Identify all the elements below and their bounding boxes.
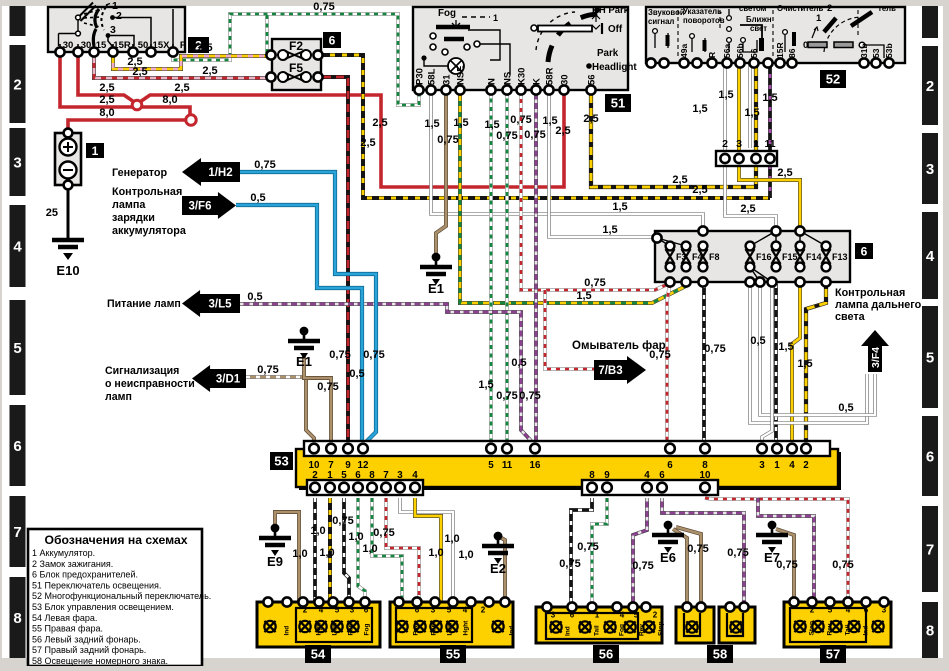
svg-text:51 Переключатель освещения.: 51 Переключатель освещения.	[32, 580, 161, 590]
svg-text:0,75: 0,75	[649, 349, 670, 361]
svg-text:53b: 53b	[884, 43, 894, 58]
svg-text:лампа: лампа	[112, 199, 146, 211]
svg-text:Stop: Stop	[809, 621, 816, 635]
svg-text:0,75: 0,75	[313, 1, 334, 13]
svg-text:1,5: 1,5	[453, 117, 468, 129]
svg-text:Headlight: Headlight	[592, 62, 637, 73]
svg-text:3/F6: 3/F6	[188, 201, 211, 213]
svg-text:1,0: 1,0	[292, 548, 307, 560]
svg-text:E10: E10	[56, 263, 79, 278]
svg-text:25: 25	[46, 207, 58, 219]
svg-text:1: 1	[92, 144, 99, 158]
svg-text:10: 10	[700, 470, 711, 481]
svg-text:55: 55	[446, 647, 460, 662]
svg-text:0,75: 0,75	[363, 349, 384, 361]
svg-text:0,75: 0,75	[704, 343, 725, 355]
svg-text:6: 6	[570, 611, 575, 620]
svg-text:5: 5	[447, 606, 452, 615]
svg-text:4: 4	[620, 611, 625, 620]
svg-text:1,0: 1,0	[319, 547, 334, 559]
svg-text:лампа дальнего: лампа дальнего	[835, 299, 922, 311]
svg-text:58R: 58R	[545, 67, 556, 85]
svg-text:RH Park: RH Park	[592, 5, 630, 16]
svg-text:0,75: 0,75	[832, 559, 853, 571]
svg-text:57: 57	[826, 647, 840, 662]
svg-text:3: 3	[397, 470, 403, 481]
svg-text:56 Левый задний фонарь.: 56 Левый задний фонарь.	[32, 634, 141, 644]
svg-text:F8: F8	[709, 252, 720, 262]
svg-text:2,5: 2,5	[777, 167, 792, 179]
svg-text:8,0: 8,0	[162, 94, 177, 106]
svg-text:8: 8	[589, 470, 595, 481]
svg-text:50: 50	[138, 40, 149, 51]
svg-text:1,5: 1,5	[692, 103, 707, 115]
svg-text:1,5: 1,5	[778, 341, 793, 353]
svg-text:2,5: 2,5	[174, 82, 189, 94]
svg-text:0,75: 0,75	[577, 541, 598, 553]
svg-text:56: 56	[599, 647, 613, 662]
svg-text:1,0: 1,0	[362, 543, 377, 555]
svg-text:4: 4	[319, 606, 324, 615]
svg-text:53 Блок управления освещением.: 53 Блок управления освещением.	[32, 602, 174, 612]
svg-text:6: 6	[364, 606, 369, 615]
svg-text:1,0: 1,0	[428, 547, 443, 559]
svg-text:6: 6	[355, 470, 361, 481]
svg-text:тель: тель	[878, 4, 896, 13]
svg-text:1,0: 1,0	[444, 533, 459, 545]
svg-text:6: 6	[415, 606, 420, 615]
svg-text:2: 2	[481, 606, 486, 615]
svg-text:2: 2	[926, 78, 934, 95]
svg-text:52 Многофункциональный переклю: 52 Многофункциональный переключатель.	[32, 591, 211, 601]
svg-text:0,75: 0,75	[559, 558, 580, 570]
svg-text:ламп: ламп	[105, 391, 132, 403]
svg-text:светом: светом	[739, 4, 767, 13]
svg-text:Ближн: Ближн	[746, 15, 772, 24]
svg-text:56: 56	[749, 48, 759, 58]
svg-text:15: 15	[96, 40, 107, 51]
svg-text:P: P	[180, 40, 187, 51]
svg-text:58 Освещение номерного знака.: 58 Освещение номерного знака.	[32, 656, 168, 666]
svg-text:7: 7	[383, 470, 389, 481]
svg-text:2: 2	[653, 611, 658, 620]
svg-text:сигнал: сигнал	[648, 17, 674, 26]
svg-text:P30: P30	[415, 68, 426, 85]
svg-text:F2: F2	[289, 39, 303, 53]
svg-text:54: 54	[311, 647, 326, 662]
svg-text:15R: 15R	[775, 42, 785, 58]
svg-text:1: 1	[493, 13, 498, 23]
svg-text:5: 5	[335, 606, 340, 615]
svg-text:52: 52	[826, 72, 840, 87]
svg-text:1: 1	[816, 13, 822, 24]
svg-text:зарядки: зарядки	[112, 212, 155, 224]
svg-text:6: 6	[926, 449, 934, 466]
svg-text:6: 6	[329, 33, 336, 47]
svg-text:5: 5	[828, 606, 833, 615]
svg-text:6: 6	[13, 438, 21, 455]
svg-text:Ind: Ind	[565, 626, 572, 636]
svg-text:Rev: Rev	[639, 624, 646, 636]
svg-text:Hght: Hght	[463, 620, 470, 636]
svg-text:0,5: 0,5	[838, 402, 853, 414]
svg-text:31b: 31b	[859, 43, 869, 58]
svg-text:Генератор: Генератор	[112, 167, 167, 179]
svg-text:Обозначения на схемах: Обозначения на схемах	[44, 533, 187, 547]
svg-text:3: 3	[736, 138, 742, 150]
svg-text:0,75: 0,75	[437, 134, 458, 146]
svg-text:3: 3	[13, 155, 21, 172]
svg-text:3/D1: 3/D1	[216, 374, 241, 386]
svg-text:0,75: 0,75	[373, 527, 394, 539]
svg-text:0,75: 0,75	[632, 560, 653, 572]
svg-text:3/L5: 3/L5	[209, 299, 233, 311]
svg-text:0,75: 0,75	[257, 364, 278, 376]
svg-text:2,5: 2,5	[197, 42, 212, 54]
svg-text:2,5: 2,5	[692, 184, 707, 196]
svg-text:51: 51	[611, 96, 625, 111]
svg-text:Указатель: Указатель	[683, 7, 722, 16]
svg-text:4: 4	[463, 606, 468, 615]
svg-text:4: 4	[789, 460, 795, 471]
svg-text:4: 4	[412, 470, 418, 481]
svg-text:Сигнализация: Сигнализация	[105, 365, 179, 377]
svg-text:Ind: Ind	[284, 626, 291, 636]
svg-text:8: 8	[926, 623, 934, 640]
svg-text:E2: E2	[490, 561, 506, 576]
svg-text:F16: F16	[756, 252, 772, 262]
svg-text:0,75: 0,75	[496, 130, 517, 142]
svg-text:Hght: Hght	[316, 620, 323, 636]
svg-text:поворотов: поворотов	[683, 16, 725, 25]
svg-text:5: 5	[341, 470, 347, 481]
svg-text:2,5: 2,5	[99, 94, 114, 106]
svg-text:2,5: 2,5	[132, 66, 147, 78]
svg-text:1,5: 1,5	[762, 92, 777, 104]
svg-text:2: 2	[722, 138, 728, 150]
svg-text:Park: Park	[431, 621, 438, 635]
svg-text:8: 8	[13, 610, 21, 627]
svg-text:2: 2	[13, 77, 21, 94]
svg-text:3: 3	[759, 460, 765, 471]
svg-text:0,75: 0,75	[687, 543, 708, 555]
svg-text:Fog: Fog	[438, 8, 456, 19]
svg-text:N: N	[487, 78, 498, 85]
svg-text:3: 3	[431, 606, 436, 615]
svg-text:1/H2: 1/H2	[208, 167, 232, 179]
svg-text:4: 4	[846, 606, 851, 615]
svg-text:K: K	[532, 78, 543, 85]
svg-text:6: 6	[667, 460, 673, 471]
svg-text:Fog: Fog	[619, 624, 626, 636]
svg-text:Park: Park	[348, 621, 355, 635]
svg-text:R: R	[707, 52, 717, 58]
svg-text:3: 3	[551, 611, 556, 620]
svg-text:Питание ламп: Питание ламп	[107, 298, 181, 310]
svg-text:16: 16	[530, 460, 541, 471]
svg-text:1,5: 1,5	[744, 107, 759, 119]
svg-text:2,5: 2,5	[202, 65, 217, 77]
svg-text:1,0: 1,0	[458, 549, 473, 561]
svg-text:Low: Low	[332, 622, 339, 636]
svg-text:1,5: 1,5	[797, 358, 812, 370]
svg-text:0,75: 0,75	[510, 114, 531, 126]
svg-text:2: 2	[827, 3, 832, 14]
svg-text:31: 31	[442, 74, 453, 85]
svg-text:0,5: 0,5	[750, 335, 765, 347]
svg-text:2: 2	[303, 606, 308, 615]
svg-text:3: 3	[926, 161, 934, 178]
svg-text:1: 1	[595, 611, 600, 620]
svg-text:E9: E9	[267, 554, 283, 569]
svg-text:5: 5	[13, 340, 21, 357]
svg-text:F14: F14	[806, 252, 822, 262]
svg-text:8,0: 8,0	[99, 107, 114, 119]
svg-text:6: 6	[861, 244, 868, 258]
svg-text:15R: 15R	[113, 40, 131, 51]
svg-text:0,75: 0,75	[496, 390, 517, 402]
svg-text:1: 1	[327, 470, 333, 481]
svg-text:Stop: Stop	[658, 622, 665, 636]
svg-text:1,0: 1,0	[348, 531, 363, 543]
svg-text:5: 5	[488, 460, 494, 471]
svg-text:7/B3: 7/B3	[598, 365, 622, 377]
svg-text:11: 11	[764, 138, 775, 150]
svg-text:Fog: Fog	[413, 624, 420, 636]
svg-text:15X: 15X	[153, 40, 171, 51]
svg-text:56b: 56b	[735, 43, 745, 58]
svg-text:0,5: 0,5	[349, 368, 364, 380]
svg-text:7: 7	[926, 542, 934, 559]
svg-text:49a: 49a	[679, 44, 689, 58]
svg-text:0,75: 0,75	[317, 381, 338, 393]
svg-text:света: света	[835, 311, 866, 323]
svg-text:6 Блок предохранителей.: 6 Блок предохранителей.	[32, 570, 138, 580]
svg-text:1,5: 1,5	[424, 118, 439, 130]
svg-text:55 Правая фара.: 55 Правая фара.	[32, 624, 103, 634]
svg-text:2,5: 2,5	[583, 113, 598, 125]
svg-text:0,75: 0,75	[727, 547, 748, 559]
svg-text:7: 7	[13, 524, 21, 541]
svg-text:1,5: 1,5	[576, 290, 591, 302]
svg-text:2,5: 2,5	[99, 82, 114, 94]
svg-text:56: 56	[587, 74, 598, 85]
svg-text:0,75: 0,75	[329, 349, 350, 361]
svg-text:30: 30	[560, 74, 571, 85]
svg-text:Звуковой: Звуковой	[648, 8, 685, 17]
svg-text:E1: E1	[428, 281, 444, 296]
svg-text:F15: F15	[782, 252, 798, 262]
svg-text:9: 9	[604, 470, 610, 481]
svg-text:53: 53	[274, 454, 288, 469]
svg-text:Очиститель: Очиститель	[777, 4, 823, 13]
svg-text:8: 8	[369, 470, 375, 481]
svg-text:K30: K30	[517, 68, 528, 85]
svg-text:2: 2	[803, 460, 809, 471]
svg-text:54 Левая фара.: 54 Левая фара.	[32, 613, 97, 623]
svg-text:1,5: 1,5	[602, 224, 617, 236]
svg-text:1 Аккумулятор.: 1 Аккумулятор.	[32, 548, 95, 558]
svg-text:53: 53	[871, 48, 881, 58]
svg-text:Rev: Rev	[827, 623, 834, 635]
svg-text:Low: Low	[447, 622, 454, 636]
svg-text:1,0: 1,0	[310, 525, 325, 537]
svg-text:NS: NS	[503, 72, 514, 85]
svg-text:2,5: 2,5	[372, 117, 387, 129]
svg-text:1,5: 1,5	[718, 89, 733, 101]
svg-text:0,75: 0,75	[584, 277, 605, 289]
svg-text:E1: E1	[296, 354, 312, 369]
svg-text:30: 30	[63, 40, 74, 51]
svg-text:Fog: Fog	[364, 624, 371, 636]
svg-text:56a: 56a	[722, 44, 732, 58]
svg-text:1: 1	[753, 138, 759, 150]
svg-text:2,5: 2,5	[672, 174, 687, 186]
svg-text:11: 11	[502, 460, 513, 471]
svg-text:0,75: 0,75	[254, 159, 275, 171]
svg-text:аккумулятора: аккумулятора	[112, 225, 187, 237]
svg-text:86: 86	[787, 48, 797, 58]
svg-text:E6: E6	[660, 550, 676, 565]
svg-text:1,5: 1,5	[542, 115, 557, 127]
svg-text:Tail: Tail	[594, 625, 601, 636]
svg-text:F13: F13	[832, 252, 848, 262]
svg-text:2,5: 2,5	[360, 137, 375, 149]
svg-text:2: 2	[116, 10, 122, 22]
svg-text:Park: Park	[597, 48, 619, 59]
svg-text:58: 58	[713, 647, 727, 662]
svg-text:0,5: 0,5	[250, 192, 265, 204]
svg-text:3: 3	[110, 24, 116, 36]
svg-text:о неисправности: о неисправности	[105, 378, 195, 390]
svg-text:Контрольная: Контрольная	[112, 186, 182, 198]
svg-text:Контрольная: Контрольная	[835, 287, 905, 299]
svg-text:Tail: Tail	[845, 625, 852, 636]
svg-text:1,5: 1,5	[612, 201, 627, 213]
svg-text:0,75: 0,75	[332, 515, 353, 527]
svg-text:2: 2	[312, 470, 318, 481]
svg-text:58L: 58L	[427, 68, 438, 85]
svg-text:3/F4: 3/F4	[870, 347, 882, 368]
svg-text:2,5: 2,5	[740, 203, 755, 215]
svg-text:Off: Off	[608, 24, 623, 35]
svg-text:3: 3	[350, 606, 355, 615]
svg-text:0,75: 0,75	[519, 390, 540, 402]
svg-text:3: 3	[882, 606, 887, 615]
svg-text:1: 1	[774, 460, 780, 471]
svg-text:Ind: Ind	[509, 626, 516, 636]
svg-text:0,5: 0,5	[247, 291, 262, 303]
svg-text:4: 4	[13, 239, 22, 256]
svg-text:4: 4	[926, 248, 935, 265]
svg-text:0,75: 0,75	[776, 559, 797, 571]
svg-text:2 Замок зажигания.: 2 Замок зажигания.	[32, 559, 113, 569]
svg-text:4: 4	[644, 470, 650, 481]
svg-text:30: 30	[81, 40, 92, 51]
svg-text:57 Правый задний фонарь.: 57 Правый задний фонарь.	[32, 645, 146, 655]
svg-text:5: 5	[926, 350, 934, 367]
svg-text:1,5: 1,5	[478, 379, 493, 391]
svg-text:F5: F5	[289, 61, 303, 75]
svg-text:0,5: 0,5	[511, 357, 526, 369]
svg-text:6: 6	[659, 470, 665, 481]
svg-text:2: 2	[810, 606, 815, 615]
svg-text:0,75: 0,75	[524, 129, 545, 141]
svg-text:NSE: NSE	[456, 65, 467, 85]
